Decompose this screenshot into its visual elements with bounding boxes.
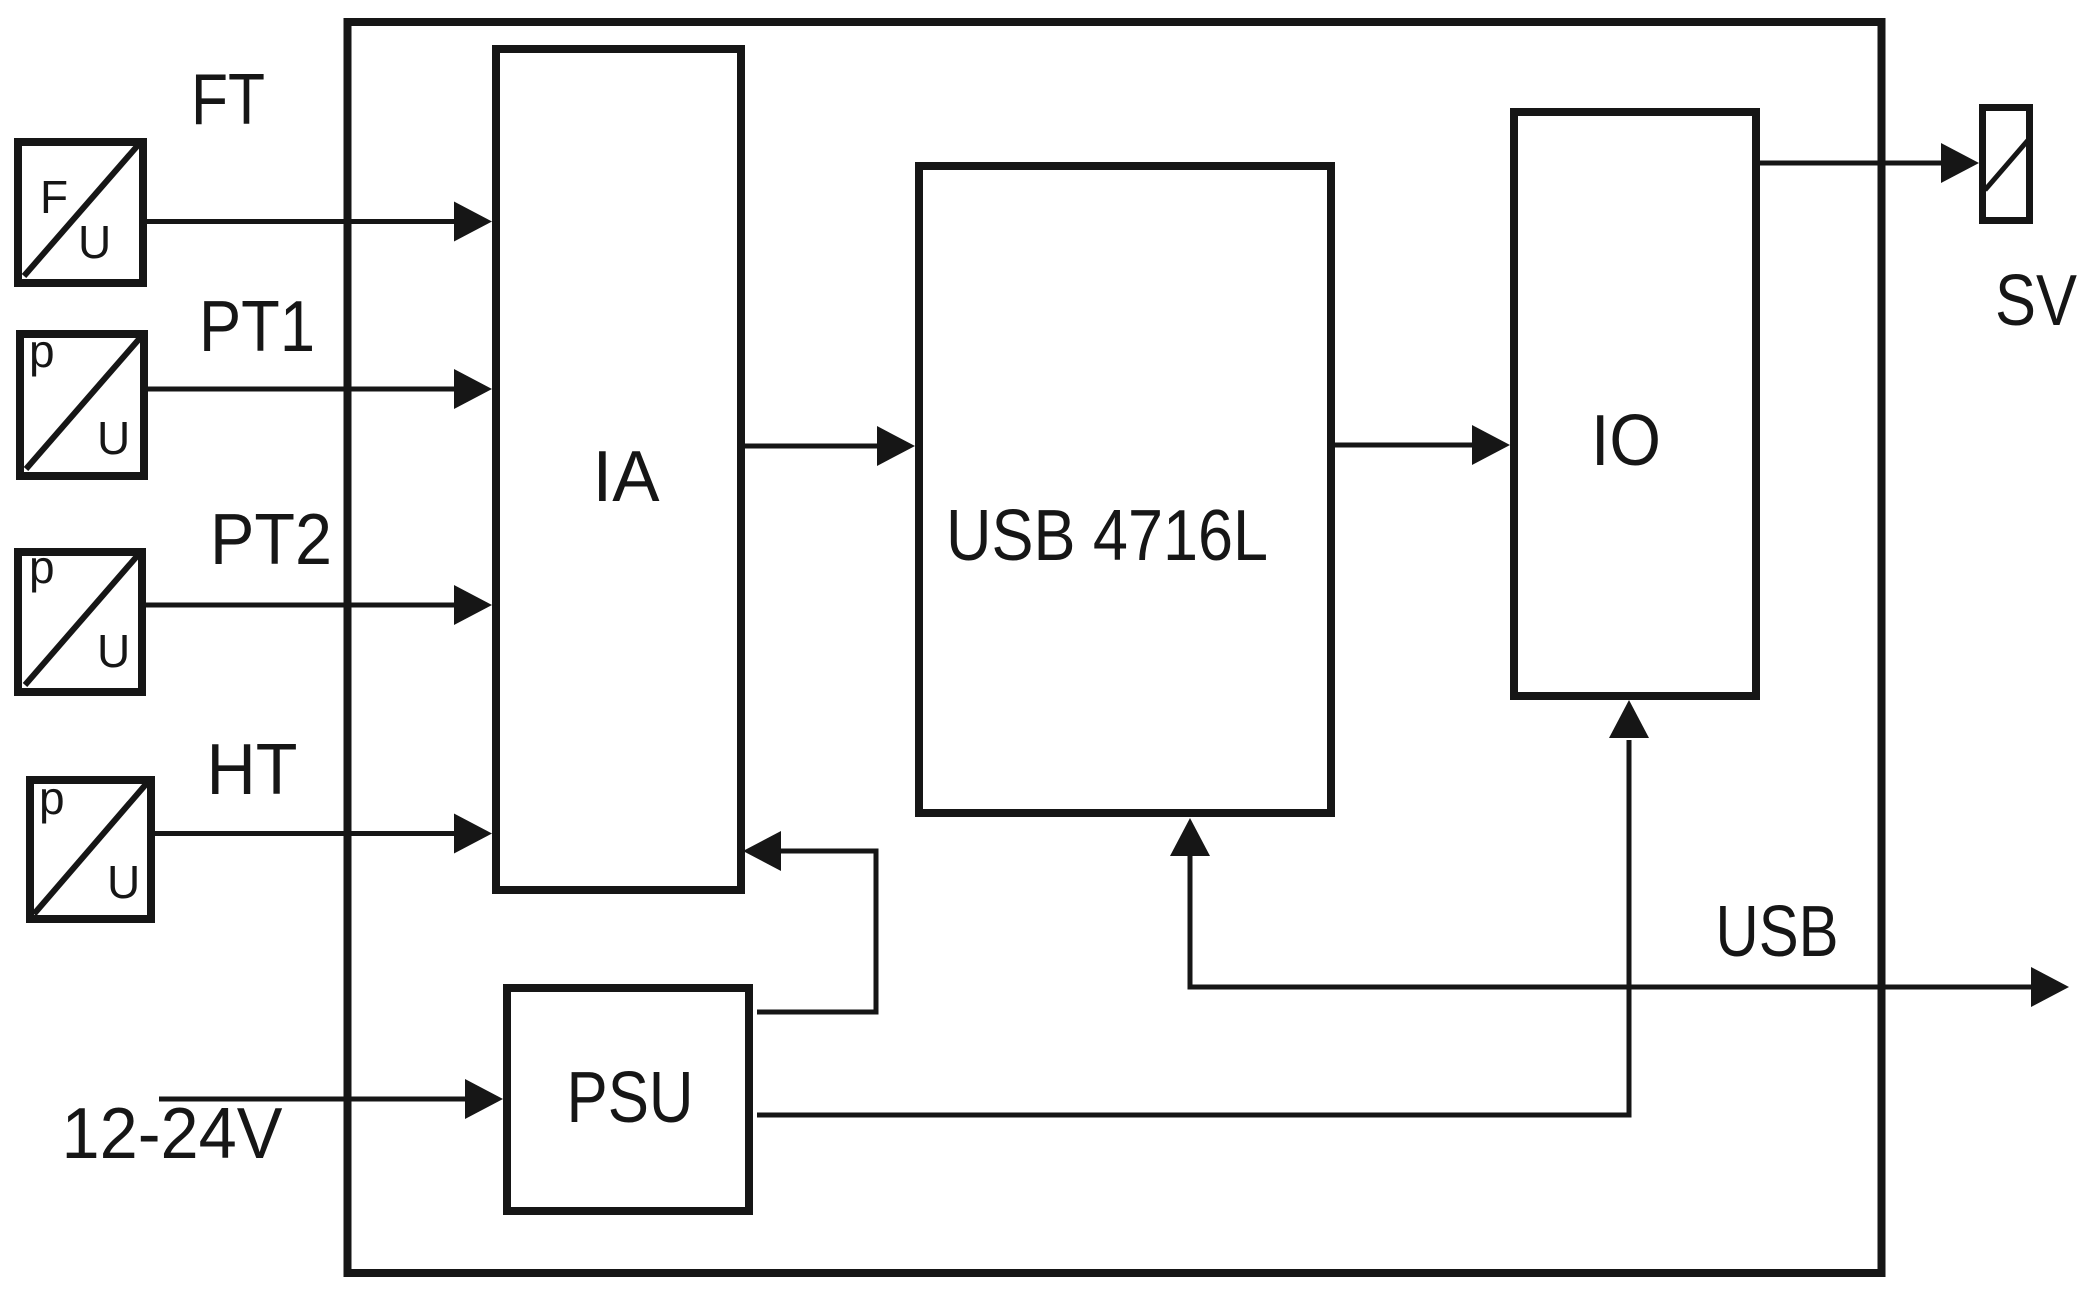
svg-text:p: p [29, 325, 55, 377]
svg-text:HT: HT [207, 730, 298, 810]
svg-text:USB: USB [1716, 892, 1839, 972]
svg-text:U: U [107, 856, 140, 908]
svg-text:p: p [29, 541, 55, 593]
svg-text:FT: FT [191, 60, 265, 140]
svg-text:U: U [78, 216, 111, 268]
svg-text:PSU: PSU [567, 1058, 694, 1138]
svg-text:IO: IO [1591, 401, 1661, 481]
svg-text:PT1: PT1 [199, 287, 315, 367]
svg-text:p: p [39, 772, 65, 824]
svg-text:12-24V: 12-24V [62, 1094, 283, 1174]
svg-text:IA: IA [593, 437, 660, 517]
svg-text:PT2: PT2 [210, 500, 332, 580]
svg-text:U: U [97, 625, 130, 677]
svg-text:U: U [97, 412, 130, 464]
svg-text:USB 4716L: USB 4716L [946, 496, 1268, 576]
svg-text:SV: SV [1995, 261, 2077, 341]
svg-text:F: F [40, 171, 68, 223]
